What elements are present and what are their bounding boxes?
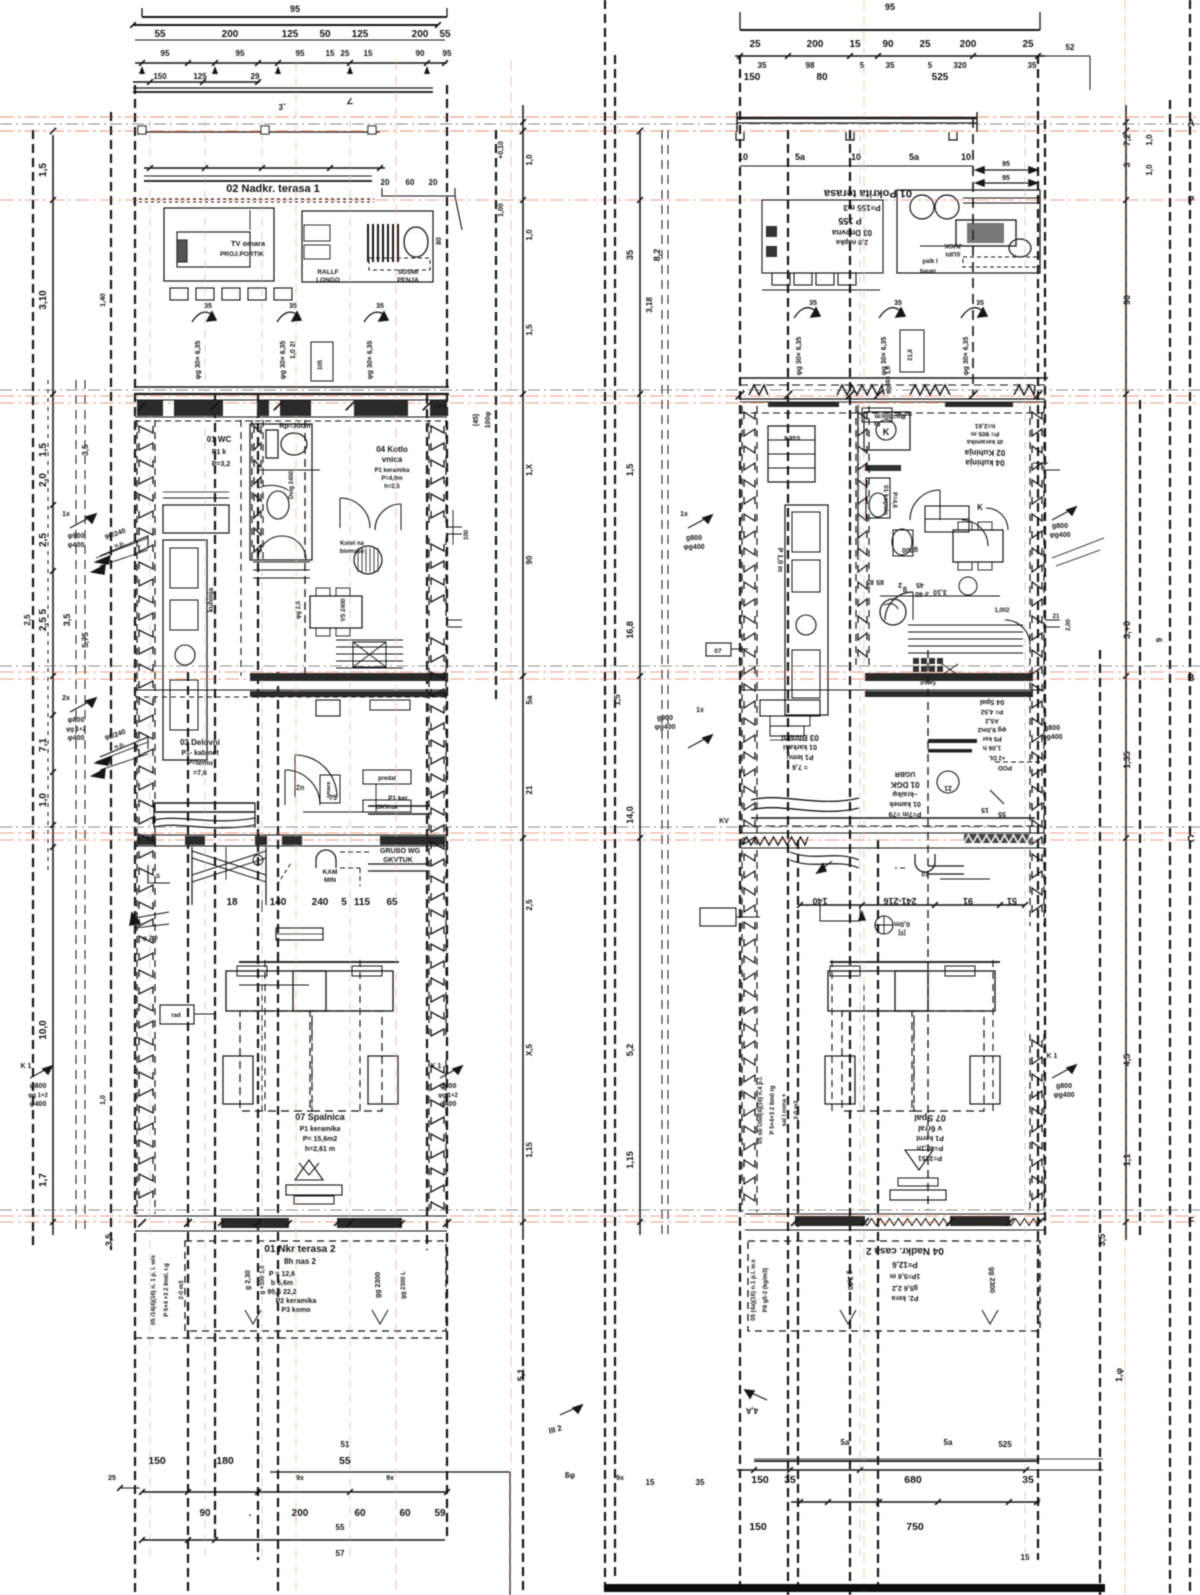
svg-text:95: 95 bbox=[290, 4, 300, 14]
svg-text:35: 35 bbox=[696, 1478, 705, 1487]
svg-text:95: 95 bbox=[1002, 161, 1010, 168]
svg-text:240: 240 bbox=[312, 897, 329, 908]
svg-text:P= 15,6m2: P= 15,6m2 bbox=[303, 1136, 338, 1143]
svg-text:P1 ker: P1 ker bbox=[388, 795, 408, 802]
svg-text:K 1: K 1 bbox=[1047, 1053, 1058, 1060]
svg-text:1,15: 1,15 bbox=[525, 1142, 534, 1158]
svg-text:05 sb Obd(4)(16) n.4 p.l.: 05 sb Obd(4)(16) n.4 p.l. bbox=[758, 1076, 764, 1144]
svg-text:1,0: 1,0 bbox=[1145, 164, 1154, 176]
svg-text:sal l oona +: sal l oona + bbox=[782, 1093, 788, 1126]
svg-text:5a: 5a bbox=[525, 695, 534, 704]
svg-text:750: 750 bbox=[906, 1521, 924, 1533]
svg-text:65: 65 bbox=[386, 897, 398, 908]
svg-text:SUPI: SUPI bbox=[945, 250, 960, 257]
svg-text:P5 ker: P5 ker bbox=[982, 735, 1002, 742]
svg-text:PENJA: PENJA bbox=[397, 277, 419, 284]
svg-text:KV: KV bbox=[719, 818, 729, 825]
svg-text:10: 10 bbox=[961, 152, 971, 162]
svg-text:P=3,2: P=3,2 bbox=[212, 461, 231, 468]
svg-text:Dvig 2400: Dvig 2400 bbox=[289, 470, 295, 499]
svg-text:9x: 9x bbox=[386, 1475, 394, 1482]
svg-text:140: 140 bbox=[270, 897, 287, 908]
svg-text:5a: 5a bbox=[944, 1438, 953, 1447]
svg-text:1,0: 1,0 bbox=[1145, 134, 1154, 146]
svg-text:∠: ∠ bbox=[346, 97, 353, 106]
svg-text:φg 1+2: φg 1+2 bbox=[28, 1093, 48, 1099]
svg-text:TV omara: TV omara bbox=[231, 239, 266, 248]
svg-text:5: 5 bbox=[341, 897, 347, 908]
svg-text:04 Kotlo: 04 Kotlo bbox=[376, 445, 408, 454]
svg-text:P1 k: P1 k bbox=[212, 449, 227, 456]
svg-text:UGBR: UGBR bbox=[895, 770, 916, 777]
svg-text:φg 30× 6,35: φg 30× 6,35 bbox=[796, 337, 803, 376]
svg-text:1,5: 1,5 bbox=[625, 464, 635, 477]
svg-text:P 155: P 155 bbox=[838, 216, 861, 226]
svg-text:1x: 1x bbox=[696, 707, 704, 714]
svg-text:+2 DL: +2 DL bbox=[988, 754, 1005, 760]
svg-text:Kotel na: Kotel na bbox=[340, 541, 364, 547]
svg-text:02 Kuhinja: 02 Kuhinja bbox=[964, 448, 1005, 457]
svg-text:1,06 h: 1,06 h bbox=[983, 744, 1001, 751]
svg-text:φ800: φ800 bbox=[68, 717, 85, 724]
svg-text:98: 98 bbox=[806, 61, 815, 70]
svg-text:3: 3 bbox=[1122, 162, 1132, 167]
svg-text:h=2,5: h=2,5 bbox=[384, 484, 400, 490]
svg-text:10: 10 bbox=[738, 152, 748, 162]
svg-text:8h nas 2: 8h nas 2 bbox=[284, 1257, 317, 1266]
svg-text:15: 15 bbox=[981, 806, 989, 813]
svg-text:P= 905 m: P= 905 m bbox=[971, 430, 1000, 437]
svg-text:rad: rad bbox=[171, 1013, 181, 1019]
svg-text:1,40: 1,40 bbox=[100, 293, 107, 307]
svg-text:04 Nadkr. casa 2: 04 Nadkr. casa 2 bbox=[866, 1245, 944, 1256]
svg-text:35: 35 bbox=[758, 61, 767, 70]
svg-text:03 Bivalni: 03 Bivalni bbox=[781, 733, 818, 742]
svg-text:21: 21 bbox=[944, 784, 952, 791]
svg-text:φ800: φ800 bbox=[30, 1083, 47, 1090]
svg-text:P1 kernt: P1 kernt bbox=[916, 1134, 944, 1141]
svg-text:P= 4,52: P= 4,52 bbox=[980, 708, 1003, 715]
svg-text:01 kopaln: 01 kopaln bbox=[882, 485, 889, 515]
svg-text:9: 9 bbox=[1155, 637, 1164, 642]
svg-text:1P=5,6 m: 1P=5,6 m bbox=[890, 1272, 921, 1279]
svg-text:15: 15 bbox=[364, 49, 373, 58]
svg-text:POD: POD bbox=[998, 764, 1012, 771]
svg-text:1,0: 1,0 bbox=[525, 229, 534, 241]
svg-text:P=temu: P=temu bbox=[187, 760, 212, 767]
svg-text:φg 30× 6,35: φg 30× 6,35 bbox=[195, 341, 202, 380]
svg-text:φg 2,5: φg 2,5 bbox=[296, 600, 302, 619]
svg-text:75: 75 bbox=[329, 795, 337, 802]
svg-text:φ400: φ400 bbox=[30, 1101, 47, 1108]
svg-text:90: 90 bbox=[416, 49, 425, 58]
svg-text:P 5+4+3 2 8mil rg: P 5+4+3 2 8mil rg bbox=[770, 1085, 776, 1134]
svg-text:59: 59 bbox=[434, 1508, 446, 1519]
svg-text:3,18: 3,18 bbox=[645, 297, 654, 313]
svg-text:Zn: Zn bbox=[296, 785, 305, 792]
svg-text:35: 35 bbox=[1028, 61, 1037, 70]
svg-text:05 /14(4)(16) n. 1 p. l. w/s: 05 /14(4)(16) n. 1 p. l. w/s bbox=[151, 1254, 157, 1325]
svg-text:1,φ: 1,φ bbox=[1114, 1367, 1124, 1382]
svg-text:100: 100 bbox=[464, 529, 470, 540]
svg-text:1,5: 1,5 bbox=[38, 443, 49, 457]
svg-text:1x: 1x bbox=[680, 511, 688, 518]
svg-text:1,002: 1,002 bbox=[994, 608, 1010, 614]
svg-text:g800: g800 bbox=[1052, 523, 1068, 530]
svg-text:35: 35 bbox=[886, 61, 895, 70]
svg-text:21,8: 21,8 bbox=[908, 349, 914, 361]
svg-text:60: 60 bbox=[354, 1508, 366, 1519]
svg-text:115: 115 bbox=[354, 897, 371, 908]
svg-text:P=7m =79: P=7m =79 bbox=[889, 810, 922, 817]
svg-text:95: 95 bbox=[296, 49, 305, 58]
svg-text:01 DGK: 01 DGK bbox=[890, 780, 919, 789]
svg-text:S: S bbox=[156, 874, 160, 880]
svg-text:320: 320 bbox=[953, 61, 967, 70]
svg-text:180: 180 bbox=[216, 1455, 234, 1467]
svg-text:φg 30× 6,35: φg 30× 6,35 bbox=[367, 341, 374, 380]
svg-text:25: 25 bbox=[749, 39, 761, 50]
svg-text:φ400: φ400 bbox=[68, 735, 85, 742]
svg-text:vnica: vnica bbox=[382, 455, 403, 464]
svg-text:P8 g5-2 (kg/m3): P8 g5-2 (kg/m3) bbox=[763, 1268, 769, 1312]
svg-text:07: 07 bbox=[714, 648, 722, 655]
svg-text:55: 55 bbox=[154, 29, 166, 40]
svg-text:04 kuhinja: 04 kuhinja bbox=[965, 458, 1005, 467]
svg-text:φg400: φg400 bbox=[655, 724, 676, 731]
svg-text:50: 50 bbox=[319, 29, 331, 40]
svg-text:80: 80 bbox=[816, 72, 828, 83]
svg-text:LONGO: LONGO bbox=[316, 277, 340, 284]
svg-text:125: 125 bbox=[282, 29, 299, 40]
svg-text:φg 9,0m2: φg 9,0m2 bbox=[977, 726, 1006, 733]
svg-text:200: 200 bbox=[807, 39, 824, 50]
svg-text:2,0 napka: 2,0 napka bbox=[836, 238, 868, 245]
svg-text:RALLF: RALLF bbox=[317, 269, 338, 276]
svg-text:PROJ.PORTIK: PROJ.PORTIK bbox=[220, 251, 264, 258]
svg-text:≥ 40: ≥ 40 bbox=[915, 590, 929, 597]
svg-text:GRUBO WG: GRUBO WG bbox=[380, 848, 421, 855]
svg-text:1,5: 1,5 bbox=[613, 694, 622, 706]
svg-text:55: 55 bbox=[439, 29, 451, 40]
svg-text:35: 35 bbox=[625, 250, 635, 260]
svg-text:21: 21 bbox=[1053, 614, 1060, 620]
svg-text:90: 90 bbox=[1122, 295, 1132, 305]
svg-text:A5,2: A5,2 bbox=[985, 717, 999, 724]
svg-text:35: 35 bbox=[784, 1474, 796, 1486]
svg-text:v 6rral: v 6rral bbox=[918, 1124, 942, 1133]
svg-text:g 2,30: g 2,30 bbox=[846, 1270, 853, 1290]
svg-text:60: 60 bbox=[399, 1508, 411, 1519]
svg-text:60: 60 bbox=[406, 178, 415, 187]
svg-text:GKVTUK: GKVTUK bbox=[383, 857, 413, 864]
svg-text:2,5: 2,5 bbox=[38, 533, 49, 547]
svg-text:21: 21 bbox=[525, 785, 534, 794]
svg-text:b 5,6m: b 5,6m bbox=[271, 1280, 293, 1287]
svg-text:P=12,6: P=12,6 bbox=[892, 1260, 918, 1269]
svg-text:200: 200 bbox=[412, 29, 429, 40]
svg-text:150: 150 bbox=[153, 72, 167, 81]
svg-text:52: 52 bbox=[1066, 43, 1075, 52]
svg-text:2: 2 bbox=[898, 581, 902, 588]
svg-text:01 Pokrita terasa: 01 Pokrita terasa bbox=[823, 187, 912, 199]
svg-text:P = 12,6: P = 12,6 bbox=[269, 1271, 295, 1278]
svg-text:25: 25 bbox=[108, 1475, 116, 1482]
svg-text:680: 680 bbox=[904, 1474, 922, 1486]
svg-text:04 Spal: 04 Spal bbox=[980, 698, 1005, 705]
svg-text:10: 10 bbox=[851, 152, 861, 162]
svg-text:5,2: 5,2 bbox=[625, 1044, 635, 1057]
svg-text:150: 150 bbox=[751, 1474, 769, 1486]
svg-text:g800: g800 bbox=[1056, 1083, 1072, 1090]
svg-text:3,5: 3,5 bbox=[62, 614, 72, 627]
svg-text:01 karkasi: 01 karkasi bbox=[783, 743, 817, 750]
svg-text:P=4,6: P=4,6 bbox=[891, 492, 897, 509]
svg-text:=7,6: =7,6 bbox=[193, 770, 207, 777]
svg-text:φg400: φg400 bbox=[684, 544, 705, 551]
svg-text:φg88× 1,0: φg88× 1,0 bbox=[886, 365, 892, 394]
svg-text:P3 komo: P3 komo bbox=[281, 1307, 310, 1314]
svg-text:dt keramika: dt keramika bbox=[967, 438, 1004, 445]
svg-text:1,5: 1,5 bbox=[38, 163, 49, 177]
svg-text:57: 57 bbox=[336, 1549, 345, 1558]
svg-text:K: K bbox=[883, 427, 890, 437]
svg-text:5x: 5x bbox=[873, 420, 880, 426]
svg-text:95: 95 bbox=[443, 49, 452, 58]
svg-text:g5,6 2,2: g5,6 2,2 bbox=[892, 1284, 918, 1291]
svg-text:JUCK: JUCK bbox=[944, 242, 962, 249]
svg-text:1,7: 1,7 bbox=[38, 1173, 49, 1187]
svg-text:φg400: φg400 bbox=[1054, 1092, 1075, 1099]
svg-text:P2 keramika: P2 keramika bbox=[276, 1298, 317, 1305]
svg-text:8φ: 8φ bbox=[565, 1471, 575, 1480]
svg-text:KAM: KAM bbox=[323, 869, 338, 876]
svg-text:φ400: φ400 bbox=[440, 1101, 457, 1108]
svg-text:AV-2: AV-2 bbox=[433, 403, 447, 410]
svg-text:55: 55 bbox=[998, 810, 1006, 817]
svg-text:1,15: 1,15 bbox=[625, 1151, 635, 1169]
svg-text:g800: g800 bbox=[1044, 725, 1060, 732]
svg-text:95,6 22,2: 95,6 22,2 bbox=[267, 1289, 296, 1296]
svg-text:90: 90 bbox=[199, 1508, 211, 1519]
svg-text:3,10: 3,10 bbox=[38, 290, 49, 310]
svg-text:05 (4a)(16) n.1 p.l. w.s: 05 (4a)(16) n.1 p.l. w.s bbox=[751, 1259, 757, 1321]
svg-text:200: 200 bbox=[292, 1508, 309, 1519]
svg-text:25: 25 bbox=[1022, 39, 1034, 50]
svg-text:150: 150 bbox=[744, 72, 761, 83]
svg-text:18: 18 bbox=[226, 897, 238, 908]
svg-text:01 WC: 01 WC bbox=[207, 435, 232, 444]
svg-text:bauer: bauer bbox=[920, 269, 937, 275]
svg-text:biomaso: biomaso bbox=[340, 549, 365, 555]
svg-text:35: 35 bbox=[1022, 1474, 1034, 1486]
svg-text:16,8: 16,8 bbox=[625, 621, 635, 639]
svg-text:2x: 2x bbox=[62, 695, 70, 702]
svg-text:90: 90 bbox=[882, 39, 894, 50]
svg-text:25: 25 bbox=[919, 39, 931, 50]
svg-text:gg 2300 L: gg 2300 L bbox=[401, 1271, 407, 1299]
svg-text:gg 2300: gg 2300 bbox=[375, 1272, 382, 1298]
svg-text:+0,10: +0,10 bbox=[498, 141, 505, 159]
svg-text:P2. kera: P2. kera bbox=[891, 1294, 918, 1301]
svg-text:P=155 m3: P=155 m3 bbox=[843, 203, 881, 212]
svg-text:1,0: 1,0 bbox=[525, 154, 534, 166]
svg-text:g: g bbox=[903, 586, 907, 593]
svg-text:K: K bbox=[977, 503, 983, 512]
svg-text:25: 25 bbox=[341, 49, 350, 58]
svg-text:3,5: 3,5 bbox=[104, 1234, 114, 1247]
svg-text:07 Spalnica: 07 Spalnica bbox=[295, 1112, 346, 1122]
svg-text:100φ: 100φ bbox=[485, 412, 492, 429]
svg-text:φg400: φg400 bbox=[1050, 532, 1071, 539]
svg-text:20: 20 bbox=[429, 178, 438, 187]
svg-text:P1 keramika: P1 keramika bbox=[300, 1126, 341, 1133]
svg-text:15: 15 bbox=[1021, 1553, 1030, 1562]
svg-text:1,0: 1,0 bbox=[100, 1095, 107, 1105]
svg-text:07 Spal: 07 Spal bbox=[914, 1113, 946, 1123]
svg-text:5,1: 5,1 bbox=[516, 1369, 526, 1382]
svg-text:95: 95 bbox=[885, 2, 895, 12]
svg-text:φ900: φ900 bbox=[68, 533, 85, 540]
svg-text:φg 1+2: φg 1+2 bbox=[438, 1093, 458, 1099]
svg-text:1,0 2!: 1,0 2! bbox=[290, 341, 297, 359]
svg-text:95: 95 bbox=[236, 49, 245, 58]
svg-text:2,5: 2,5 bbox=[23, 614, 32, 626]
svg-text:29: 29 bbox=[251, 72, 260, 81]
svg-text:[0]: [0] bbox=[898, 929, 905, 935]
svg-text:35: 35 bbox=[204, 303, 212, 310]
svg-text:φg 30× 6,35: φg 30× 6,35 bbox=[280, 341, 287, 380]
svg-text:P1 keramika: P1 keramika bbox=[374, 468, 410, 474]
svg-text:1,0: 1,0 bbox=[38, 793, 49, 807]
svg-text:g800: g800 bbox=[902, 546, 918, 553]
svg-text:φg400: φg400 bbox=[1042, 734, 1063, 741]
svg-text:gg 2300: gg 2300 bbox=[988, 1267, 995, 1293]
svg-text:predal: predal bbox=[378, 776, 396, 782]
svg-text:15: 15 bbox=[646, 1478, 655, 1487]
svg-text:2,0: 2,0 bbox=[38, 473, 49, 487]
svg-text:1x: 1x bbox=[62, 511, 70, 518]
svg-text:7,2: 7,2 bbox=[1122, 134, 1132, 147]
svg-text:X,5: X,5 bbox=[525, 1043, 534, 1056]
svg-text:55: 55 bbox=[339, 1455, 351, 1467]
svg-text:1,5: 1,5 bbox=[525, 324, 534, 336]
svg-text:9x: 9x bbox=[296, 1475, 304, 1482]
svg-text:14,0: 14,0 bbox=[625, 806, 635, 824]
svg-text:h=2,61: h=2,61 bbox=[974, 422, 995, 429]
svg-text:95: 95 bbox=[1002, 175, 1010, 182]
svg-text:01 kamek: 01 kamek bbox=[889, 800, 921, 807]
svg-text:1,X: 1,X bbox=[525, 463, 534, 476]
svg-text:15: 15 bbox=[326, 49, 335, 58]
svg-text:g800: g800 bbox=[686, 535, 702, 542]
svg-text:P: P bbox=[1188, 195, 1195, 206]
svg-text:1,00: 1,00 bbox=[498, 203, 505, 217]
svg-text:3ˇ: 3ˇ bbox=[278, 103, 285, 112]
svg-text:(45): (45) bbox=[473, 414, 480, 426]
svg-text:95: 95 bbox=[161, 49, 170, 58]
svg-text:03a k: 03a k bbox=[783, 434, 800, 441]
svg-text:10,0: 10,0 bbox=[38, 1020, 49, 1040]
svg-text:VS 2400: VS 2400 bbox=[341, 598, 347, 622]
svg-text:3,5: 3,5 bbox=[1097, 1234, 1107, 1247]
svg-text:K 1: K 1 bbox=[21, 1063, 32, 1070]
svg-text:3,+0: 3,+0 bbox=[1122, 621, 1132, 639]
svg-text:P 1,0 m: P 1,0 m bbox=[776, 548, 783, 572]
svg-text:5a: 5a bbox=[795, 152, 806, 162]
svg-text:55: 55 bbox=[336, 1523, 345, 1532]
svg-text:90: 90 bbox=[525, 555, 534, 564]
svg-text:φ400: φ400 bbox=[68, 542, 85, 549]
svg-text:7,1: 7,1 bbox=[38, 738, 49, 752]
svg-text:5: 5 bbox=[928, 61, 933, 70]
svg-text:g900: g900 bbox=[657, 715, 673, 722]
svg-text:φg 1+2: φg 1+2 bbox=[66, 727, 86, 733]
svg-text:1,35: 1,35 bbox=[1122, 751, 1132, 769]
svg-text:.: . bbox=[249, 1508, 252, 1519]
svg-text:2,00: 2,00 bbox=[1066, 619, 1072, 631]
svg-text:P1- kabinet: P1- kabinet bbox=[181, 750, 219, 757]
svg-text:02 Nadkr. terasa 1: 02 Nadkr. terasa 1 bbox=[226, 183, 320, 195]
svg-text:03 Delovni: 03 Delovni bbox=[180, 738, 220, 747]
svg-text:5: 5 bbox=[860, 61, 865, 70]
svg-text:51: 51 bbox=[341, 1440, 350, 1449]
svg-text:h=2,61 m: h=2,61 m bbox=[305, 1146, 335, 1153]
svg-text:P 5+4 +3 2 8mil. r.g: P 5+4 +3 2 8mil. r.g bbox=[164, 1263, 170, 1317]
svg-text:palk I: palk I bbox=[922, 259, 938, 265]
svg-text:525: 525 bbox=[998, 1440, 1012, 1449]
svg-text:80: 80 bbox=[436, 237, 443, 245]
svg-text:150: 150 bbox=[749, 1521, 767, 1533]
svg-text:03 Dnevna: 03 Dnevna bbox=[831, 228, 872, 237]
svg-text:45: 45 bbox=[916, 581, 924, 588]
svg-text:2,5: 2,5 bbox=[525, 899, 534, 911]
svg-text:35: 35 bbox=[976, 300, 984, 307]
svg-text:105: 105 bbox=[318, 359, 324, 370]
svg-text:01 Nkr terasa 2: 01 Nkr terasa 2 bbox=[264, 1244, 336, 1255]
svg-text:2-0 m3: 2-0 m3 bbox=[794, 1100, 800, 1120]
svg-text:P=4,9m: P=4,9m bbox=[381, 476, 402, 482]
svg-text:9x: 9x bbox=[616, 1475, 624, 1482]
svg-text:g 2,30: g 2,30 bbox=[245, 1270, 252, 1290]
svg-text:15: 15 bbox=[849, 39, 861, 50]
svg-text:200: 200 bbox=[222, 29, 239, 40]
svg-text:2-0 m3: 2-0 m3 bbox=[179, 1280, 185, 1300]
svg-text:85: 85 bbox=[876, 578, 884, 585]
svg-text:MIN: MIN bbox=[324, 877, 336, 884]
svg-text:35: 35 bbox=[289, 303, 297, 310]
svg-text:8,2: 8,2 bbox=[652, 249, 662, 262]
svg-text:35: 35 bbox=[809, 300, 817, 307]
svg-text:35: 35 bbox=[376, 303, 384, 310]
svg-text:35: 35 bbox=[894, 300, 902, 307]
svg-text:SUSMI: SUSMI bbox=[398, 269, 419, 276]
svg-text:0,0m: 0,0m bbox=[894, 920, 910, 927]
svg-text:kuhinja: kuhinja bbox=[208, 588, 215, 613]
svg-text:4,5: 4,5 bbox=[1122, 1054, 1132, 1067]
svg-text:5a: 5a bbox=[909, 152, 920, 162]
svg-text:P1 lemu: P1 lemu bbox=[787, 753, 814, 760]
svg-text:525: 525 bbox=[932, 72, 949, 83]
svg-text:4,A: 4,A bbox=[746, 1406, 759, 1415]
svg-text:3,10: 3,10 bbox=[933, 588, 947, 595]
svg-text:Rp=30cm: Rp=30cm bbox=[874, 412, 905, 419]
svg-text:5a: 5a bbox=[841, 1438, 850, 1447]
svg-text:150: 150 bbox=[148, 1455, 166, 1467]
svg-text:20: 20 bbox=[381, 178, 390, 187]
svg-text:= 7,6: = 7,6 bbox=[792, 763, 808, 770]
svg-text:1,1: 1,1 bbox=[1122, 1154, 1132, 1167]
